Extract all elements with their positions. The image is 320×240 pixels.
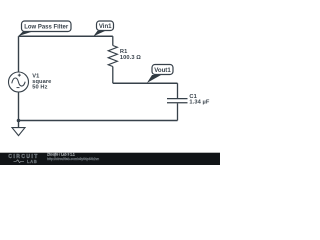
footer bar bbox=[0, 153, 220, 165]
wire bottom return bbox=[19, 120, 178, 122]
wire mid horizontal to C1 branch bbox=[113, 82, 178, 84]
voltage source V1 bbox=[9, 72, 29, 92]
footer logo wave mark bbox=[14, 160, 25, 163]
flag pennant Vout1 bbox=[147, 75, 161, 83]
svg-text:http://circuitlab.com/c8y64p49: http://circuitlab.com/c8y64p49k2vn bbox=[47, 157, 99, 161]
svg-text:Low Pass Filter: Low Pass Filter bbox=[24, 24, 69, 31]
flag pennant Low Pass Filter bbox=[18, 31, 33, 36]
wire ground stub bbox=[18, 121, 20, 128]
V1 minus sign bbox=[17, 87, 20, 89]
label box Low Pass Filter bbox=[22, 21, 72, 32]
wire C1 bottom lead bbox=[177, 103, 179, 120]
svg-text:Vout1: Vout1 bbox=[154, 67, 171, 74]
wire V1 bottom lead bbox=[18, 92, 20, 121]
footer title line bbox=[47, 153, 75, 157]
node junction dot bbox=[17, 119, 21, 123]
svg-text:50 Hz: 50 Hz bbox=[32, 85, 47, 91]
svg-text:1.34 µF: 1.34 µF bbox=[189, 100, 210, 106]
label box Vout1 bbox=[152, 65, 173, 75]
wire R1 top lead bbox=[112, 36, 114, 45]
svg-text:Zhoujie / Lab 3 1.1: Zhoujie / Lab 3 1.1 bbox=[47, 153, 75, 157]
wire top from node A to R1 top corner bbox=[19, 35, 113, 37]
footer url line bbox=[47, 157, 99, 161]
capacitor C1 bbox=[167, 99, 188, 103]
V1 sine waveform bbox=[12, 78, 25, 86]
wire C1 top lead bbox=[177, 83, 179, 98]
wire left top segment node A to V1 bbox=[18, 36, 20, 72]
svg-text:Vin1: Vin1 bbox=[99, 23, 112, 30]
flag pennant Vin1 bbox=[93, 31, 105, 37]
ground bbox=[12, 128, 25, 136]
resistor R1 bbox=[108, 46, 117, 67]
svg-text:LAB: LAB bbox=[27, 159, 37, 164]
label box Vin1 bbox=[97, 21, 114, 31]
svg-text:100.3 Ω: 100.3 Ω bbox=[120, 55, 141, 61]
V1 plus sign bbox=[18, 74, 21, 77]
wire R1 bottom lead to mid corner bbox=[112, 67, 114, 84]
